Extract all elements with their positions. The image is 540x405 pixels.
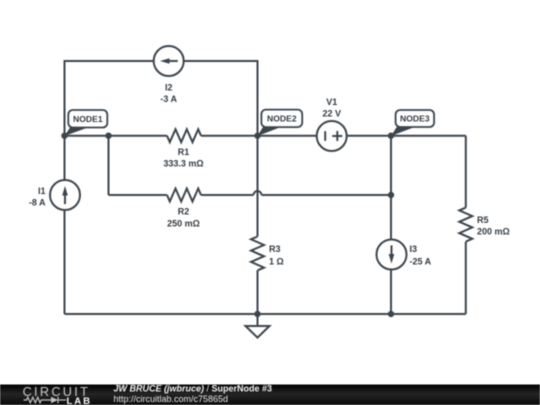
footer bar (0, 385, 540, 405)
current source I2 (154, 46, 184, 76)
current source I3 (377, 240, 407, 270)
node NODE2 label (258, 110, 303, 136)
wire right column top to R5 (465, 136, 467, 208)
wire R5 bottom to bottom rail (465, 242, 467, 314)
node I3 bottom junction (388, 311, 394, 317)
node NODE3 label (391, 110, 434, 136)
resistor R3 (251, 237, 264, 271)
svg-text:I1: I1 (38, 186, 46, 196)
wire row3 left to R2 (109, 194, 168, 196)
svg-text:22 V: 22 V (322, 108, 341, 118)
resistor R5 (459, 208, 472, 242)
wire left column NODE1 down through I1 to bottom rail (64, 136, 66, 314)
svg-text:I3: I3 (410, 244, 418, 254)
wire NODE3 column down through I3 to bottom rail (390, 136, 392, 314)
svg-text:R2: R2 (178, 207, 190, 217)
svg-text:250 mΩ: 250 mΩ (167, 219, 200, 229)
svg-text:-3 A: -3 A (160, 94, 177, 104)
svg-text:R3: R3 (269, 244, 281, 254)
svg-text:I2: I2 (165, 83, 173, 93)
wire R3 bottom to bottom rail (257, 270, 259, 314)
wire V1 to NODE3 (332, 135, 391, 137)
node NODE2 junction (254, 133, 260, 139)
node B junction (105, 133, 111, 139)
footer logo resistor-diode glyph (24, 397, 67, 404)
wire R1 right to NODE2 (201, 135, 258, 137)
svg-text:-25 A: -25 A (410, 256, 432, 266)
svg-text:-8 A: -8 A (29, 198, 46, 208)
node NODE3 junction (388, 133, 394, 139)
wire top loop NODE1 to NODE2 via I2 (65, 61, 258, 136)
node NODE3 row3 junction (388, 192, 394, 198)
svg-text:JW BRUCE (jwbruce) / SuperNode: JW BRUCE (jwbruce) / SuperNode #3 (114, 383, 273, 393)
svg-text:NODE3: NODE3 (400, 114, 430, 124)
svg-text:1 Ω: 1 Ω (269, 256, 284, 266)
svg-text:LAB: LAB (67, 396, 92, 405)
svg-text:R5: R5 (477, 215, 489, 225)
wire NODE2 column down through R3 area (257, 136, 259, 237)
current source I1 (50, 180, 80, 210)
wire row2 NODE1 to R1 left (65, 135, 168, 137)
wire hop over NODE2 column (254, 191, 262, 195)
node ground junction (254, 311, 260, 317)
svg-text:NODE2: NODE2 (267, 114, 297, 124)
svg-text:http://circuitlab.com/c75865d: http://circuitlab.com/c75865d (114, 394, 229, 404)
ground (246, 314, 270, 338)
voltage source V1 (317, 121, 347, 151)
svg-text:NODE1: NODE1 (73, 114, 103, 124)
node NODE1 label (65, 110, 108, 136)
wire hop to NODE3 column (262, 194, 392, 196)
svg-text:V1: V1 (326, 97, 337, 107)
wire column B from row2 to row3 (108, 136, 110, 195)
svg-text:R1: R1 (178, 147, 190, 157)
svg-text:200 mΩ: 200 mΩ (477, 227, 510, 237)
wire bottom rail (65, 313, 466, 315)
resistor R1 (167, 129, 201, 142)
node NODE1 junction (61, 133, 67, 139)
wire NODE2 to V1 (258, 135, 332, 137)
svg-text:333.3 mΩ: 333.3 mΩ (163, 159, 203, 169)
resistor R2 (167, 189, 201, 202)
wire NODE3 to right column (391, 135, 466, 137)
wire R2 right to hop (201, 194, 254, 196)
